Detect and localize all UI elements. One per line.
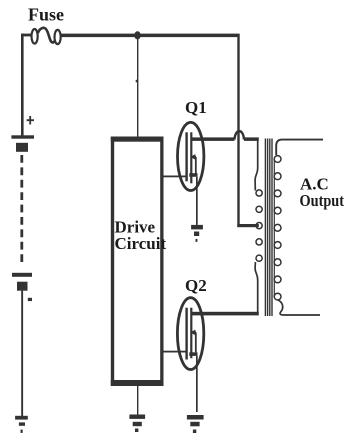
wire: rail to drive circuit box [137, 37, 138, 137]
transistor Q2 gate bar [185, 308, 187, 360]
transistor Q2 substrate arrow [192, 331, 196, 333]
drive circuit block U1 [111, 137, 164, 387]
transistor Q1 gate bar [185, 132, 187, 181]
wire: Q1 source down [196, 177, 198, 225]
transistor Q2 envelope [177, 298, 203, 370]
transformer T1 primary top lead [255, 140, 258, 191]
transformer T1 primary winding loops [256, 190, 262, 261]
transistor Q1 substrate arrow [192, 156, 196, 158]
transistor Q1 source bar [189, 173, 197, 177]
wire: drive circuit to Q2 gate [163, 351, 186, 353]
wire: Q2 source down [196, 356, 198, 412]
svg-text:Q1: Q1 [185, 98, 207, 117]
battery B1 cell 1 positive plate [11, 135, 34, 138]
battery B1 cell 1 negative plate [16, 143, 28, 152]
transformer T1 secondary connecting spine [273, 158, 275, 297]
ground (Q1 source) [191, 225, 203, 242]
transformer T1 secondary winding loops [274, 156, 281, 300]
wire: drive circuit to Q1 gate [163, 176, 186, 178]
transistor Q1 channel bar [190, 132, 192, 183]
battery B1 cell 2 negative plate [17, 282, 28, 291]
ground (drive circuit) [129, 415, 145, 433]
transistor Q1 envelope [178, 122, 204, 190]
wire: Q2 drain to transformer [191, 312, 259, 316]
transistor Q2 channel bar [190, 308, 192, 359]
wire: drive circuit box to ground [137, 386, 138, 415]
wire: top rail [61, 34, 240, 38]
svg-text:Q2: Q2 [185, 276, 207, 295]
transformer T1 primary bottom lead [255, 262, 258, 314]
wire: centre tap horizontal [237, 224, 258, 227]
wire: Q1 drain to transformer (left of hop) [191, 137, 235, 141]
fuse F1 element (squiggle) [38, 28, 57, 43]
wire: top-left corner to fuse [21, 34, 32, 37]
fuse F1 left terminal [31, 29, 37, 44]
wire: battery negative to ground [21, 291, 23, 416]
wire: dashed battery link [20, 155, 23, 265]
transistor Q2 source bar [189, 352, 197, 356]
ground (Q2 source) [187, 415, 204, 433]
fuse F1 right terminal [55, 30, 61, 44]
wire: Q1 drain to transformer (right of hop) [244, 137, 259, 141]
wire: top rail down to centre tap [237, 37, 239, 227]
ground (battery) [15, 416, 28, 433]
battery plus sign [27, 116, 34, 125]
node: speck on stub [136, 80, 138, 83]
transformer T1 core [265, 139, 273, 317]
battery B1 cell 2 positive plate [12, 273, 32, 277]
svg-text:Fuse: Fuse [28, 5, 64, 25]
wire: secondary bottom output [278, 300, 320, 315]
svg-text:Circuit: Circuit [115, 234, 167, 253]
battery minus sign [28, 298, 32, 301]
node: junction on top rail [134, 31, 141, 39]
svg-text:Output: Output [300, 191, 345, 210]
wire: left vertical (battery feed) [21, 34, 24, 136]
wire: secondary top output [276, 140, 323, 155]
wire hop over vertical feed [235, 131, 245, 139]
